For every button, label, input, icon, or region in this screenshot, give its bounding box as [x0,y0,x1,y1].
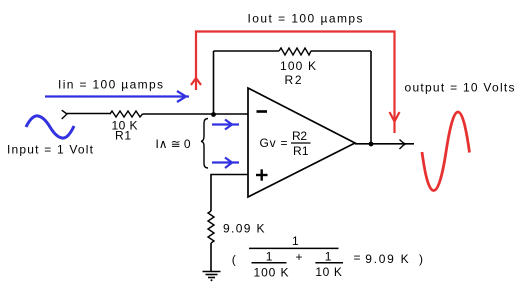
svg-text:+: + [296,250,303,264]
feedback wire to R2 [214,50,280,52]
Iout current path (red) [196,32,395,134]
input wire arrowhead [62,110,67,119]
brace for input currents [201,119,208,169]
op-amp noninverting input plus sign [256,174,268,176]
resistor R2 [279,48,311,55]
svg-text:9.09 K: 9.09 K [365,252,409,266]
svg-text:1: 1 [266,250,273,264]
node A junction dot [211,112,216,117]
svg-text:Iout = 100 µamps: Iout = 100 µamps [248,12,363,26]
lower input current arrow (blue) [212,161,239,163]
wire noninverting input [211,175,248,212]
svg-text:Iin = 100 µamps: Iin = 100 µamps [58,78,163,92]
svg-text:=: = [354,251,361,265]
resistor R3 (9.09 K) vertical [208,211,214,243]
formula sub fraction 1 bar [252,262,287,264]
svg-text:9.09 K: 9.09 K [223,222,265,236]
svg-text:R1: R1 [115,129,131,143]
feedback wire down to output node [370,51,372,144]
wire input to R1 [67,113,111,115]
formula sub fraction 2 bar [315,262,343,264]
input sine wave [26,116,74,138]
svg-text:100 K: 100 K [280,59,316,73]
wire op-amp output [355,143,414,145]
feedback wire R2 to right branch [311,50,371,52]
svg-text:R2: R2 [292,129,307,143]
ground [203,271,221,273]
Iout up arrowhead (red) [191,78,201,85]
formula main fraction bar [249,247,339,249]
op-amp U1 [248,88,355,197]
Iout down arrowhead (red) [390,112,400,122]
feedback wire node A up [213,51,215,114]
svg-text:1: 1 [292,234,299,248]
svg-text:output = 10 Volts: output = 10 Volts [405,81,515,95]
svg-text:100 K: 100 K [254,266,289,280]
gain fraction bar [291,142,311,144]
output wire arrowhead [400,140,405,150]
wire R1 to node A [143,113,249,115]
upper input current arrow (blue) [212,123,239,125]
svg-text:1: 1 [325,250,332,264]
output node dot [369,142,374,147]
svg-text:Gv =: Gv = [260,136,288,150]
op-amp inverting input minus sign [257,110,268,113]
svg-text:R1: R1 [293,144,309,158]
resistor R1 [110,111,143,117]
svg-text:Input = 1 Volt: Input = 1 Volt [7,143,94,157]
wire R3 to ground [210,243,212,272]
svg-text:10 K: 10 K [315,265,342,279]
Iin current arrow (blue) [45,95,189,97]
svg-text:R2: R2 [285,73,302,87]
output sine wave (red) [422,112,470,191]
svg-text:I∧ ≅ 0: I∧ ≅ 0 [156,137,191,151]
svg-text:(: ( [232,252,236,266]
svg-text:): ) [419,252,423,266]
